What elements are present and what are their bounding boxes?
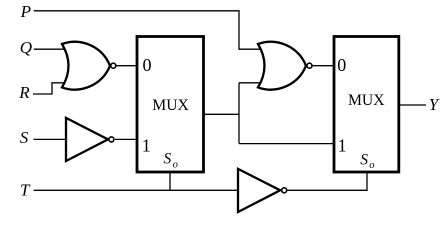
svg-text:0: 0 [337, 55, 346, 75]
inverter U4 bubble [282, 188, 287, 193]
svg-text:o: o [369, 160, 374, 171]
svg-text:T: T [20, 181, 31, 200]
wire R stepped to NOR1 bottom input [33, 83, 66, 94]
svg-text:MUX: MUX [152, 97, 189, 114]
svg-text:1: 1 [338, 136, 347, 156]
svg-text:1: 1 [142, 136, 151, 156]
wire inverter U4 output to MUX2 select [287, 171, 367, 190]
NOR gate G2 body [258, 42, 306, 90]
NOR gate G2 bubble [307, 63, 312, 68]
NOR gate G1 body [62, 42, 110, 90]
svg-text:Y: Y [429, 95, 440, 114]
wire NOR1 output to MUX1 input 0 [116, 65, 136, 67]
wire inverter U3 output to MUX1 input 1 [115, 138, 137, 140]
wire MUX2 output to Y [399, 104, 426, 106]
svg-text:P: P [20, 2, 31, 21]
svg-text:S: S [20, 128, 29, 147]
wire Q to NOR1 top input [34, 48, 66, 50]
NOR gate G1 bubble [111, 63, 116, 68]
wire S to inverter U3 input [34, 138, 67, 140]
svg-text:Q: Q [20, 38, 32, 57]
wire mid node to MUX2 input 1 [239, 143, 334, 145]
inverter U4 triangle (T line) [238, 169, 280, 212]
wire MUX1 output to mid node [204, 113, 240, 115]
svg-text:o: o [173, 160, 178, 171]
MUX1 box [137, 37, 204, 173]
svg-text:MUX: MUX [348, 92, 385, 109]
svg-text:S: S [360, 151, 368, 168]
inverter U3 bubble [109, 137, 114, 142]
wire mid node to NOR2 bottom input [239, 82, 262, 84]
inverter U3 triangle (S input) [66, 118, 108, 161]
svg-text:0: 0 [143, 55, 152, 75]
MUX2 box [334, 37, 399, 173]
wire P horizontal and down to NOR2 top input [34, 11, 262, 49]
wire T line to inverter U4 input [34, 189, 239, 191]
svg-text:R: R [18, 83, 30, 102]
wire mid vertical node [238, 83, 240, 144]
wire MUX1 select from T line [169, 171, 171, 190]
svg-text:S: S [164, 151, 172, 168]
wire NOR2 output to MUX2 input 0 [312, 65, 333, 67]
